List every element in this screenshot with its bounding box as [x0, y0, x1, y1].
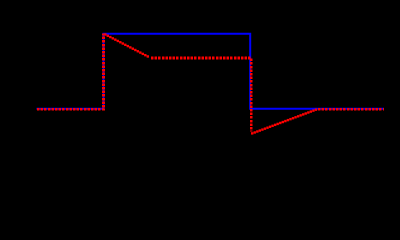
red response: right baseline (dotted) [318, 108, 384, 111]
red response: droop decay diagonal (dotted) [104, 33, 149, 57]
blue input square wave [37, 34, 385, 109]
red response: left baseline and rising edge (dotted) [37, 34, 104, 110]
red response: settled plateau and falling edge (dotted) [151, 58, 251, 131]
red response: undershoot recovery diagonal (dotted) [251, 108, 317, 134]
